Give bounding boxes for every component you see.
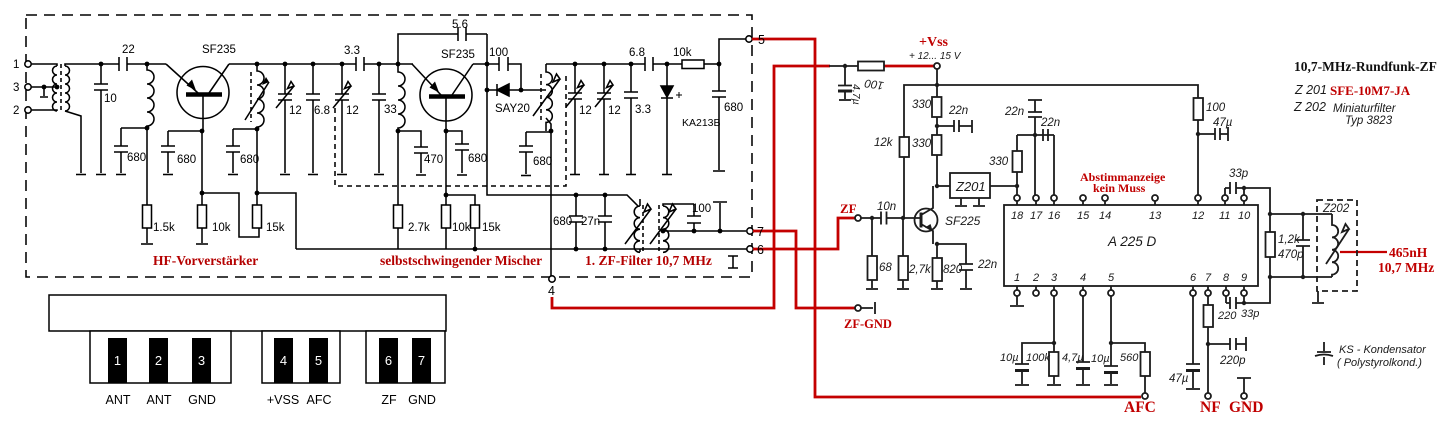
svg-text:Z 202: Z 202 [1293,100,1326,114]
svg-text:2: 2 [155,353,162,368]
pin circle 10 [1241,195,1247,201]
svg-text:22n: 22n [1040,117,1060,129]
svg-text:3: 3 [13,82,19,94]
transistor Q2 SF235 [420,69,472,121]
tunable inductor T2 [257,64,264,129]
capacitor 100 (series osc) [499,57,521,90]
wire emitter to 22n d [937,244,966,264]
pin circle 4 [1080,290,1086,296]
svg-text:12k: 12k [874,137,894,149]
svg-text:22n: 22n [1004,106,1024,118]
GND terminal [1241,393,1247,399]
pin circle 8 [1223,290,1229,296]
terminal 2 [25,107,31,113]
svg-text:22n: 22n [977,259,997,271]
svg-text:560: 560 [1120,352,1139,364]
red wire pin7 to ZF-GND [753,231,855,308]
capacitor 6.8 b (series) [645,57,653,71]
connector pin 4 [274,338,293,383]
ground bar cap680b [163,174,173,176]
ground bar KA213B [662,174,672,176]
GND stub [1237,378,1251,393]
T4 primary winding [634,206,640,252]
wire terminal3 tap [31,86,57,88]
ground bar secondary [76,174,86,176]
resistor 1.2k [1266,232,1276,257]
svg-text:15k: 15k [482,222,501,234]
svg-text:Miniaturfilter: Miniaturfilter [1333,103,1397,115]
Q1 emitter diagonal [166,64,198,93]
svg-text:11: 11 [1219,210,1230,222]
capacitor 22n b (stub up) [1028,100,1042,135]
node 22n a [935,124,939,128]
node 68 [870,216,874,220]
svg-text:KA213B: KA213B [682,117,721,129]
svg-text:1.5k: 1.5k [153,222,175,234]
top right title block [1293,59,1437,127]
pin5 wire down [1110,296,1112,366]
Z202 ground [1312,291,1324,303]
lead 560 to AFC [1144,376,1146,393]
Q3 emitter [921,224,933,244]
terminal 4 [549,276,555,282]
svg-text:2,7k: 2,7k [908,264,932,276]
node 4.7u [843,64,847,68]
capacitor 100 b [687,204,701,231]
Z202 arrow [1326,224,1349,264]
capacitor 47u a [1198,127,1228,141]
node Z201 left [935,184,939,188]
wire between 330a and 330b [936,117,938,135]
wire Vss down [936,69,938,97]
svg-text:Typ 3823: Typ 3823 [1345,115,1393,127]
svg-text:3.3: 3.3 [344,45,360,57]
capacitor 680 g [569,216,583,249]
resistor 15k b [471,205,480,228]
svg-text:470: 470 [424,154,443,166]
svg-text:6: 6 [1190,272,1197,284]
resistor 2.7k [899,256,909,280]
connector pin 5 [309,338,328,383]
node 330c bottom [1015,184,1019,188]
capacitor 680 a [114,128,128,173]
red pointer 465nH [1340,251,1387,253]
leads 1.2k [1269,214,1271,277]
svg-text:470p: 470p [1278,249,1304,261]
wire Z201 right to pin18 [990,186,1017,195]
wire node to resistor [829,65,858,67]
svg-text:16: 16 [1048,210,1061,222]
wire 33p b to right rail [1244,277,1270,303]
svg-text:33: 33 [384,104,397,116]
ZF filter input wire caps [576,195,605,216]
Z202 inductor [1332,214,1338,277]
wire T2 bottom to R15k [256,129,258,205]
svg-text:1. ZF-Filter 10,7 MHz: 1. ZF-Filter 10,7 MHz [585,253,712,268]
resistor 220 [1204,305,1214,327]
svg-text:3: 3 [1051,272,1058,284]
ground bar cap10 [96,174,106,176]
lead 10kb to rail [445,228,447,249]
inductor L1 [147,64,154,128]
wire Q1 to cap680b [168,130,202,132]
node 470p bottom [1301,275,1305,279]
node R15k top [255,191,260,196]
svg-text:680: 680 [127,152,146,164]
svg-text:KS - Kondensator: KS - Kondensator [1339,344,1427,356]
ground stub on tap [40,87,48,97]
ground bar 10u a [1015,384,1029,386]
resistor 330 b [932,135,942,155]
pin stubs top [1017,195,1244,205]
wire bias 10k to 15k bottom [202,193,259,237]
wire L1 bottom to cap680a [121,127,147,129]
ground bar cap680a [116,174,126,176]
wire ZF terminal to cap [861,217,881,219]
svg-text:Z 201: Z 201 [1294,83,1327,97]
svg-text:6.8: 6.8 [629,47,645,59]
resistor 330 a [932,97,942,117]
svg-text:330: 330 [912,99,932,111]
svg-text:SFE-10M7-JA: SFE-10M7-JA [1330,83,1411,98]
svg-text:15: 15 [1077,210,1090,222]
svg-text:ZF: ZF [840,201,857,216]
wire T3 tap [542,89,546,91]
terminal 1 [25,61,31,67]
T4 secondary arrow [650,204,676,244]
leads 2.7k [902,218,904,288]
wire pin17 [1034,135,1036,195]
wire bias 15k to mixer rail [257,193,296,249]
ground bar cap3.3b [626,174,636,176]
resistor 10k b [442,205,451,228]
red wire pin4 +VSS [552,66,830,308]
pin circle 7 [1205,290,1211,296]
node Vss rail [935,83,939,87]
node T2 top [255,62,260,67]
svg-text:68: 68 [879,262,892,274]
wire secondary bottom down [65,111,81,173]
connector group box 1 [90,331,231,383]
transformer TR1 core [60,64,62,112]
T4 secondary top lead [663,204,694,206]
svg-text:ZF-GND: ZF-GND [844,317,892,331]
capacitor 680 e [519,146,533,174]
node cap100b bottom [692,229,697,234]
wire L33 bottom to cap470 [398,131,421,147]
left block value labels [13,19,765,298]
svg-text:220: 220 [1217,310,1237,322]
pin circle 13 [1152,195,1158,201]
svg-text:4,7µ: 4,7µ [850,84,862,105]
capacitor 47u b [1186,364,1200,388]
lead 1.5k bottom [146,228,148,243]
svg-text:SAY20: SAY20 [495,103,530,115]
ground bar 4.7u b [1076,384,1090,386]
svg-text:2: 2 [1032,272,1039,284]
wire pin3 to 10u a [1022,343,1054,364]
red labels right [840,35,1434,416]
wire Q1 down to R10k [201,131,203,205]
ground bar 1.5k [141,243,153,245]
Q2 collector diagonal [452,64,473,95]
connector pin 3 [192,338,211,383]
svg-text:Z202: Z202 [1322,203,1350,215]
node 470p top [1301,212,1305,216]
wire top rail to Z202 [1270,213,1332,215]
svg-text:680: 680 [468,153,487,165]
T4 secondary winding [663,206,669,252]
connector pin 2 [149,338,168,383]
wire terminal1 to transformer [31,64,57,66]
svg-text:( Polystyrolkond.): ( Polystyrolkond.) [1337,357,1422,369]
wire 12k to base node [903,157,905,218]
svg-text:selbstschwingender Mischer: selbstschwingender Mischer [380,253,542,268]
svg-text:+VSS: +VSS [267,393,299,407]
osc transformer T3 core dash [540,74,542,120]
diode SAY20 [487,84,542,96]
ZF-GND terminal [855,305,861,311]
svg-text:NF: NF [1200,399,1221,416]
ground bar cap680f [713,170,725,172]
ground bar 22n d [960,288,972,290]
terminal 6 [747,246,753,252]
ground bar 820 [931,288,943,290]
node 680g [574,193,579,198]
wire tap to terminal 7 [663,230,746,232]
capacitor 6.8 [306,64,320,173]
plus mark KA213B [676,92,682,98]
lead 2.7k to rail [397,228,399,249]
pin circle 5 [1108,290,1114,296]
ground bar cap680c [228,174,238,176]
node stub [718,229,723,234]
transistor Q1 SF235 [177,67,229,119]
inner dashed oscillator box [335,76,566,186]
+Vss node circle [934,63,940,69]
wire T3 bottom to cap680e [526,132,551,146]
capacitor 4.7u b [1076,362,1090,384]
svg-text:2.7k: 2.7k [408,222,430,234]
pin1 ground [1010,296,1024,306]
svg-text:5: 5 [758,33,765,47]
inductor 33 [398,64,405,131]
mixer bottom rail [296,248,747,250]
capacitor 3.3 (series) [356,57,413,71]
svg-text:12: 12 [289,105,302,117]
svg-text:A 225 D: A 225 D [1107,234,1157,249]
svg-text:10n: 10n [877,201,896,213]
svg-text:1: 1 [13,59,19,71]
svg-text:680: 680 [177,154,196,166]
wire 100b to pin 12 [1197,120,1199,195]
transformer TR1 primary winding [53,66,58,111]
svg-text:10,7-MHz-Rundfunk-ZF: 10,7-MHz-Rundfunk-ZF [1294,59,1437,74]
wire bias to 15k b [446,195,475,205]
capacitor 22n c (to pin16) [1043,129,1054,195]
KS-Kondensator symbol [1315,342,1333,365]
T2 arrow [245,82,269,120]
lead 220 [1207,327,1209,393]
resistor 10k a [198,205,207,228]
Q2 emitter arrow [430,82,440,93]
svg-text:GND: GND [188,393,216,407]
svg-text:680: 680 [240,154,259,166]
lead 10k bottom [201,228,203,243]
pin circle 12 [1195,195,1201,201]
svg-text:10k: 10k [452,222,471,234]
pin circle 11 [1222,195,1228,201]
capacitor 680 f [712,64,726,170]
connector body [49,295,446,331]
connector pin 6 [379,338,398,383]
node pin5 [1109,341,1113,345]
Q3 emitter arrow [925,224,933,231]
svg-text:12: 12 [579,105,592,117]
connector group box 2 [262,331,340,383]
ground bar 47u b [1186,388,1200,390]
capacitor 27n [598,216,612,249]
node T3 bottom [549,129,554,134]
ground bar 68 [866,288,878,290]
svg-text:14: 14 [1099,210,1111,222]
svg-text:13: 13 [1149,210,1162,222]
pin circle 3 [1051,290,1057,296]
node T2 bottom [255,127,260,132]
Q2 base bar [429,94,465,99]
svg-text:6: 6 [757,243,764,257]
wire node to Z201 [937,185,950,187]
capacitor 33 [372,64,386,173]
resistor 560 [1141,352,1151,376]
capacitor 680 c [226,129,240,173]
T4 primary leads [639,199,641,252]
svg-text:GND: GND [408,393,436,407]
pin circle 6 [1190,290,1196,296]
lead 15kb to rail [474,228,476,249]
variable capacitor 12 b [335,64,349,173]
svg-text:12: 12 [1192,210,1204,222]
wire L33 bottom to R2.7k [397,131,399,205]
node L33 top [396,62,401,67]
rail tank top [546,63,682,65]
wire to terminal 5 [719,39,746,64]
svg-text:AFC: AFC [1124,399,1156,416]
terminal 7 [747,228,753,234]
varcap 12 a arrow [276,82,294,109]
ground bar 10u b [1104,384,1118,386]
resistor 68 [868,256,878,280]
node 33p a [1242,186,1246,190]
ground bar varcap d [599,174,609,176]
connector group box 3 [366,331,445,383]
node 33p b [1242,301,1246,305]
svg-text:6: 6 [385,353,392,368]
chassis mark [728,256,738,268]
resistor 820 [933,258,943,281]
Z201 box [950,173,990,198]
ground bar cap33 [374,174,384,176]
resistor 100 b [1194,98,1204,120]
ground bar 10k [196,243,208,245]
rail segment Q2 right [473,63,499,65]
variable capacitor 12 d [597,64,611,174]
resistor 100k [1049,352,1059,376]
ground bar cap470 [416,174,426,176]
IC A225D box [1004,205,1258,286]
diode KA213B [661,64,673,174]
svg-text:9: 9 [1241,272,1247,284]
wire Q2 to cap680d [446,131,462,144]
svg-text:17: 17 [1030,210,1043,222]
node 2.7k [901,216,905,220]
capacitor 33p b (bottom) [1226,296,1244,309]
Q2 base lead down [445,99,447,132]
svg-text:100: 100 [489,47,508,59]
variable capacitor 12 a [278,64,292,173]
svg-text:Z201: Z201 [955,179,986,194]
resistor 1.5k [143,205,152,228]
svg-text:6.8: 6.8 [314,105,330,117]
svg-text:100k: 100k [1026,352,1050,364]
node cap3.3b [629,62,634,67]
Z201 legs with grounds [955,198,985,206]
connector pin 1 [108,338,127,383]
wire Q2 down to R10kb [445,131,447,205]
svg-text:SF235: SF235 [202,44,236,56]
node SAY20 left [485,88,490,93]
svg-text:ZF: ZF [381,393,397,407]
resistor 100 (supply) [858,62,884,71]
node R10k top [200,191,205,196]
svg-text:1: 1 [1014,272,1020,284]
capacitor 470p [1296,214,1310,277]
red wire pin6 to ZF [753,218,855,249]
Q1 collector diagonal [209,64,229,93]
NF terminal [1205,393,1211,399]
svg-text:4,7µ: 4,7µ [1062,352,1084,364]
node 22n junction [1033,133,1037,137]
node pin3 [1052,341,1056,345]
Q3 base bar [920,213,923,228]
node tap at winding [55,85,60,90]
svg-text:10,7 MHz: 10,7 MHz [1378,260,1434,275]
svg-text:47µ: 47µ [1213,117,1233,129]
wire terminal2 to transformer [31,110,57,111]
node right rail bottom [1268,275,1272,279]
svg-text:680: 680 [553,216,572,228]
Z202 dashed box [1317,200,1357,291]
node 27n [603,193,608,198]
svg-text:7: 7 [757,225,764,239]
svg-text:33p: 33p [1241,308,1259,320]
capacitor 22n d [959,264,973,288]
leads 68 [871,218,873,288]
svg-text:820: 820 [943,264,963,276]
node feedback join [485,62,490,67]
transistor Q3 SF225 [915,209,938,232]
node 220p [1206,342,1210,346]
svg-text:22n: 22n [948,105,968,117]
wire secondary top to rail [65,64,119,66]
ground bar varcap a [280,174,290,176]
feedback loop wire with cap 5.6 [398,27,487,64]
capacitor 22 (series) [119,57,166,71]
pin circle 14 [1102,195,1108,201]
wire 330b to Z201 node [936,155,938,186]
node right rail top [1268,212,1272,216]
node varcap3 [573,62,578,67]
